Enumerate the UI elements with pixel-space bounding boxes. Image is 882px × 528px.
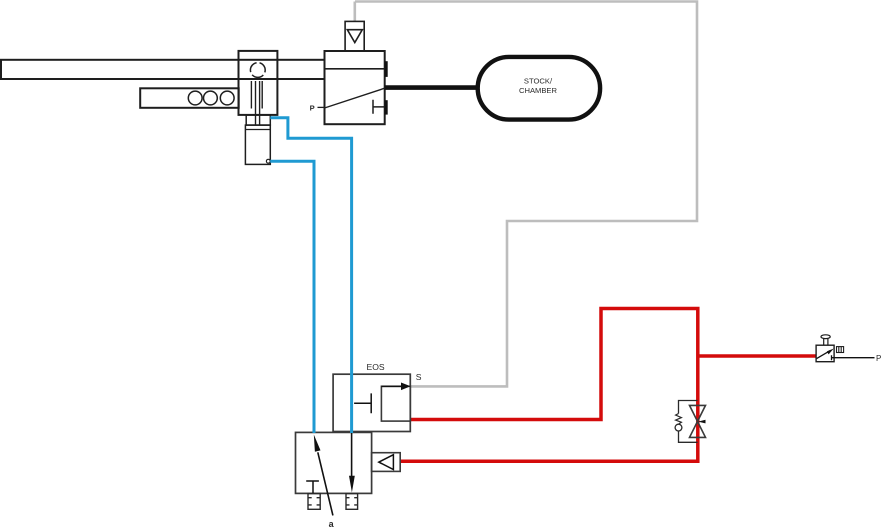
wire blue 2 from cylinder port to shuttle valve (270, 161, 314, 433)
magazine rail with parts (140, 88, 239, 108)
bypass check ball circle (675, 424, 682, 431)
thick feed line to stock chamber (385, 85, 479, 90)
feed cylinder bottom port circle (266, 159, 270, 163)
EOS pilot symbol (354, 393, 371, 413)
part ball 3 (220, 91, 234, 105)
flow control FC1 hourglass (690, 405, 706, 437)
feed cylinder neck (246, 115, 270, 125)
palm button cap (821, 335, 830, 339)
shuttle valve diagonal arrow actuator a (318, 452, 333, 515)
shuttle valve down arrow (351, 432, 353, 477)
palm button valve body (816, 345, 834, 362)
wire blue 1 from feeder neck to shuttle valve (270, 118, 351, 433)
valve V1 body (325, 51, 385, 124)
part ball 1 (188, 91, 202, 105)
valve V1 flow diagonal (325, 88, 385, 108)
shuttle valve seat symbol (306, 481, 319, 493)
flow control FC1 needle arrow (698, 420, 706, 424)
valve V1 pilot cap (345, 21, 364, 51)
palm button stem (824, 338, 828, 345)
svg-text:P: P (310, 104, 315, 113)
stock chamber vessel (478, 57, 600, 120)
svg-text:CHAMBER: CHAMBER (519, 86, 557, 95)
svg-text:P: P (876, 354, 881, 363)
svg-text:EOS: EOS (367, 362, 385, 372)
exhaust muffler right (346, 494, 358, 510)
lead line from P label (318, 106, 325, 108)
wire gray pilot signal from valve V1 cap to EOS output S (355, 2, 697, 387)
barrel tube of applicator gun (1, 60, 325, 79)
valve V1 right port tab lower (385, 100, 388, 114)
EOS output arrow to S (381, 385, 402, 387)
valve V1 cap triangle (347, 30, 362, 43)
palm button flow diagonal arrow (817, 350, 831, 358)
svg-text:STOCK/: STOCK/ (524, 77, 553, 86)
bypass lower leg (679, 431, 698, 442)
svg-text:S: S (416, 372, 422, 382)
feed cylinder body (245, 125, 270, 164)
valve V1 seat symbol (373, 100, 385, 114)
wire red supply loop from EOS to flow control FC1 and shuttle port (400, 309, 698, 462)
valve V1 divider line (325, 68, 385, 70)
wire red branch to palm button P (698, 354, 816, 358)
escapement dashed circle (250, 63, 265, 78)
exhaust muffler left (308, 494, 320, 510)
part ball 2 (204, 91, 218, 105)
EOS inner rect (381, 386, 410, 421)
palm button exhaust grille (837, 347, 844, 353)
feed cylinder cap line (245, 129, 270, 131)
shuttle valve body (296, 432, 372, 493)
feeder body block (239, 51, 278, 115)
shuttle pilot box with triangle (372, 453, 401, 472)
supply line to P (832, 355, 875, 360)
bypass spring (676, 414, 682, 425)
wire gray stub above valve V1 cap (353, 2, 356, 22)
valve V1 right port tab upper (385, 61, 388, 77)
svg-text:a: a (329, 519, 335, 528)
flow control FC1 bypass check branch (679, 401, 698, 414)
plunger rod lines (251, 81, 262, 125)
EOS valve body (333, 374, 410, 431)
